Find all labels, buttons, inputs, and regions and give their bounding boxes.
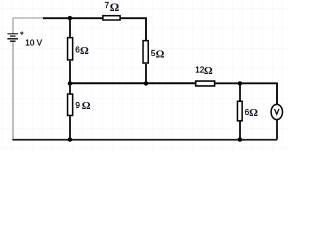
wire: top wire left segment (node A) — [43, 17, 103, 19]
svg-text:10 V: 10 V — [25, 39, 42, 48]
resistor R1 7ohm (top, horizontal) — [103, 16, 120, 20]
wire: middle wire right segment to right branch corner — [215, 83, 277, 105]
svg-text:9: 9 — [75, 101, 80, 110]
battery plus sign — [20, 31, 23, 34]
svg-text:Ω: Ω — [80, 45, 89, 57]
label 9 ohm — [75, 100, 90, 112]
svg-text:Ω: Ω — [156, 49, 165, 61]
junction dot bottom of right 6-ohm — [238, 137, 242, 141]
junction dot at top of 6-ohm branch — [68, 16, 72, 20]
resistor R2 6ohm (upper left, vertical) — [68, 17, 73, 84]
wire: bottom return wire (node C) — [12, 139, 277, 141]
wire: middle horizontal wire (node B) — [70, 82, 196, 84]
battery V1 10V — [7, 34, 18, 41]
svg-text:Ω: Ω — [82, 100, 91, 112]
svg-text:7: 7 — [105, 0, 110, 10]
wire: battery bottom lead (gray) down the left side — [12, 42, 14, 140]
resistor R3 5ohm (vertical at x=146) — [143, 41, 148, 84]
wire: top wire right segment with corner down to 5-ohm — [120, 18, 146, 41]
svg-text:Ω: Ω — [110, 0, 119, 14]
voltmeter V (right branch) — [271, 104, 282, 139]
junction dot bottom of 9-ohm — [68, 137, 72, 141]
svg-text:Ω: Ω — [249, 107, 258, 119]
wire: battery top lead (gray) from battery to x=44 — [13, 18, 44, 34]
junction dot at top of right 6-ohm — [238, 81, 242, 85]
label 5 ohm — [151, 49, 165, 61]
resistor R4 12ohm (middle, horizontal) — [196, 81, 215, 86]
junction dot middle-left — [68, 81, 72, 85]
label 6 ohm (lower) — [245, 107, 259, 119]
label 7 ohm — [105, 0, 120, 14]
label 12 ohm — [195, 65, 213, 77]
resistor R5 6ohm (lower right, vertical) — [237, 84, 242, 140]
resistor R6 9ohm (lower left, vertical) — [68, 84, 73, 140]
junction dot below 5-ohm — [144, 81, 148, 85]
label 6 ohm (upper) — [75, 45, 89, 57]
svg-text:Ω: Ω — [204, 65, 213, 77]
